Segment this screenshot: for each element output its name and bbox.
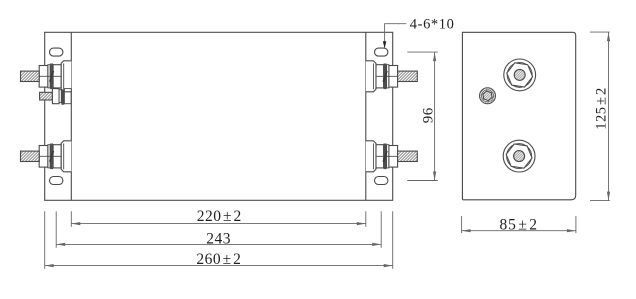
upper right washer mark: [383, 71, 387, 82]
upper left terminal threaded stud: [21, 71, 40, 81]
right end-plate edge: [365, 32, 367, 200]
lower right terminal centerline: [376, 155, 398, 157]
lower left terminal collar: [53, 145, 61, 168]
upper right terminal spacer: [387, 65, 389, 88]
lower terminal outer circle (side view): [503, 140, 535, 172]
svg-text:220±2: 220±2: [197, 208, 242, 225]
extension line left body: [70, 211, 72, 227]
lower right terminal washer: [384, 144, 387, 170]
lower left terminal base cylinder: [61, 141, 71, 172]
lower right terminal hex nut: [389, 146, 398, 168]
upper right terminal collar: [376, 65, 384, 88]
small ground terminal hex stud section: [483, 91, 492, 101]
small ground terminal outer circle (side view): [480, 88, 496, 104]
lower terminal stud section: [514, 151, 525, 162]
svg-text:125±2: 125±2: [594, 87, 610, 129]
lower right terminal collar: [376, 145, 384, 168]
leader line for slot callout: [385, 24, 407, 44]
dimension line 243: [56, 243, 381, 245]
upper left terminal collar: [53, 65, 61, 88]
small ground stud body block: [64, 89, 71, 104]
extension line top slot for 96: [407, 51, 438, 53]
upper left washer mark: [50, 71, 54, 82]
upper terminal hex nut (side view): [507, 63, 533, 87]
bottom-left mounting slot 6x10: [50, 177, 63, 185]
front view body outline: [45, 32, 393, 200]
lower right terminal spacer: [387, 145, 389, 168]
upper left terminal centerline: [39, 75, 62, 77]
extension line right slot center: [380, 211, 382, 248]
upper right terminal centerline: [376, 75, 398, 77]
dimension line 125±2: [608, 32, 610, 201]
extension line bottom slot for 96: [407, 180, 438, 182]
top-right mounting slot 6x10: [375, 48, 388, 56]
dimension line 220±2: [71, 223, 366, 225]
dimension line 260±2: [45, 265, 393, 267]
bottom-right mounting slot 6x10: [375, 177, 388, 185]
upper right terminal base cylinder: [366, 61, 376, 92]
svg-text:260±2: 260±2: [196, 251, 241, 268]
lower terminal inner ring: [507, 144, 532, 169]
svg-text:85±2: 85±2: [500, 217, 538, 234]
extension line left flange: [44, 211, 46, 268]
upper left terminal hex nut: [39, 66, 48, 88]
lower left terminal washer: [50, 144, 53, 170]
extension line right for 85: [575, 216, 577, 233]
upper terminal outer circle (side view): [504, 59, 536, 91]
upper right terminal washer: [384, 64, 387, 90]
extension line left slot center: [55, 211, 57, 248]
svg-text:96: 96: [420, 107, 436, 123]
side view body outline: [462, 32, 575, 200]
top-left mounting slot 6x10: [50, 48, 63, 56]
leader arrow: [383, 41, 386, 49]
upper left terminal spacer: [48, 65, 50, 88]
small ground stud hatched nut: [40, 92, 53, 100]
extension line right body: [365, 211, 367, 227]
small ground stud spacer: [59, 90, 61, 103]
dimension line 96: [434, 52, 436, 180]
small ground terminal hatched ring: [480, 88, 496, 104]
svg-text:243: 243: [206, 230, 231, 247]
dimension line 85±2: [462, 230, 576, 232]
extension line right flange: [392, 211, 394, 268]
lower terminal hex nut (side view): [506, 144, 532, 168]
svg-text:4-6*10: 4-6*10: [410, 17, 455, 33]
upper left terminal base cylinder: [61, 61, 71, 92]
extension line top for 125: [590, 31, 610, 33]
small ground stud dark washer: [61, 89, 64, 104]
extension line left for 85: [461, 216, 463, 233]
lower left terminal hex nut: [39, 146, 48, 168]
lower left washer mark: [50, 151, 54, 162]
lower left terminal threaded stud: [21, 151, 40, 161]
lower left terminal spacer: [48, 145, 50, 168]
extension line bottom for 125: [590, 200, 610, 202]
lower right washer mark: [383, 151, 387, 162]
lower left terminal centerline: [39, 155, 62, 157]
upper left terminal washer: [50, 64, 53, 90]
left end-plate edge: [70, 32, 72, 200]
upper terminal stud section: [514, 69, 525, 80]
lower right terminal base cylinder: [366, 141, 376, 172]
upper right terminal threaded stud: [398, 71, 418, 81]
upper terminal inner ring: [507, 62, 532, 87]
small ground stud washer plate: [52, 89, 59, 104]
upper right terminal hex nut: [389, 66, 398, 88]
lower right terminal threaded stud: [398, 151, 418, 161]
small ground terminal inner circle: [482, 90, 494, 102]
